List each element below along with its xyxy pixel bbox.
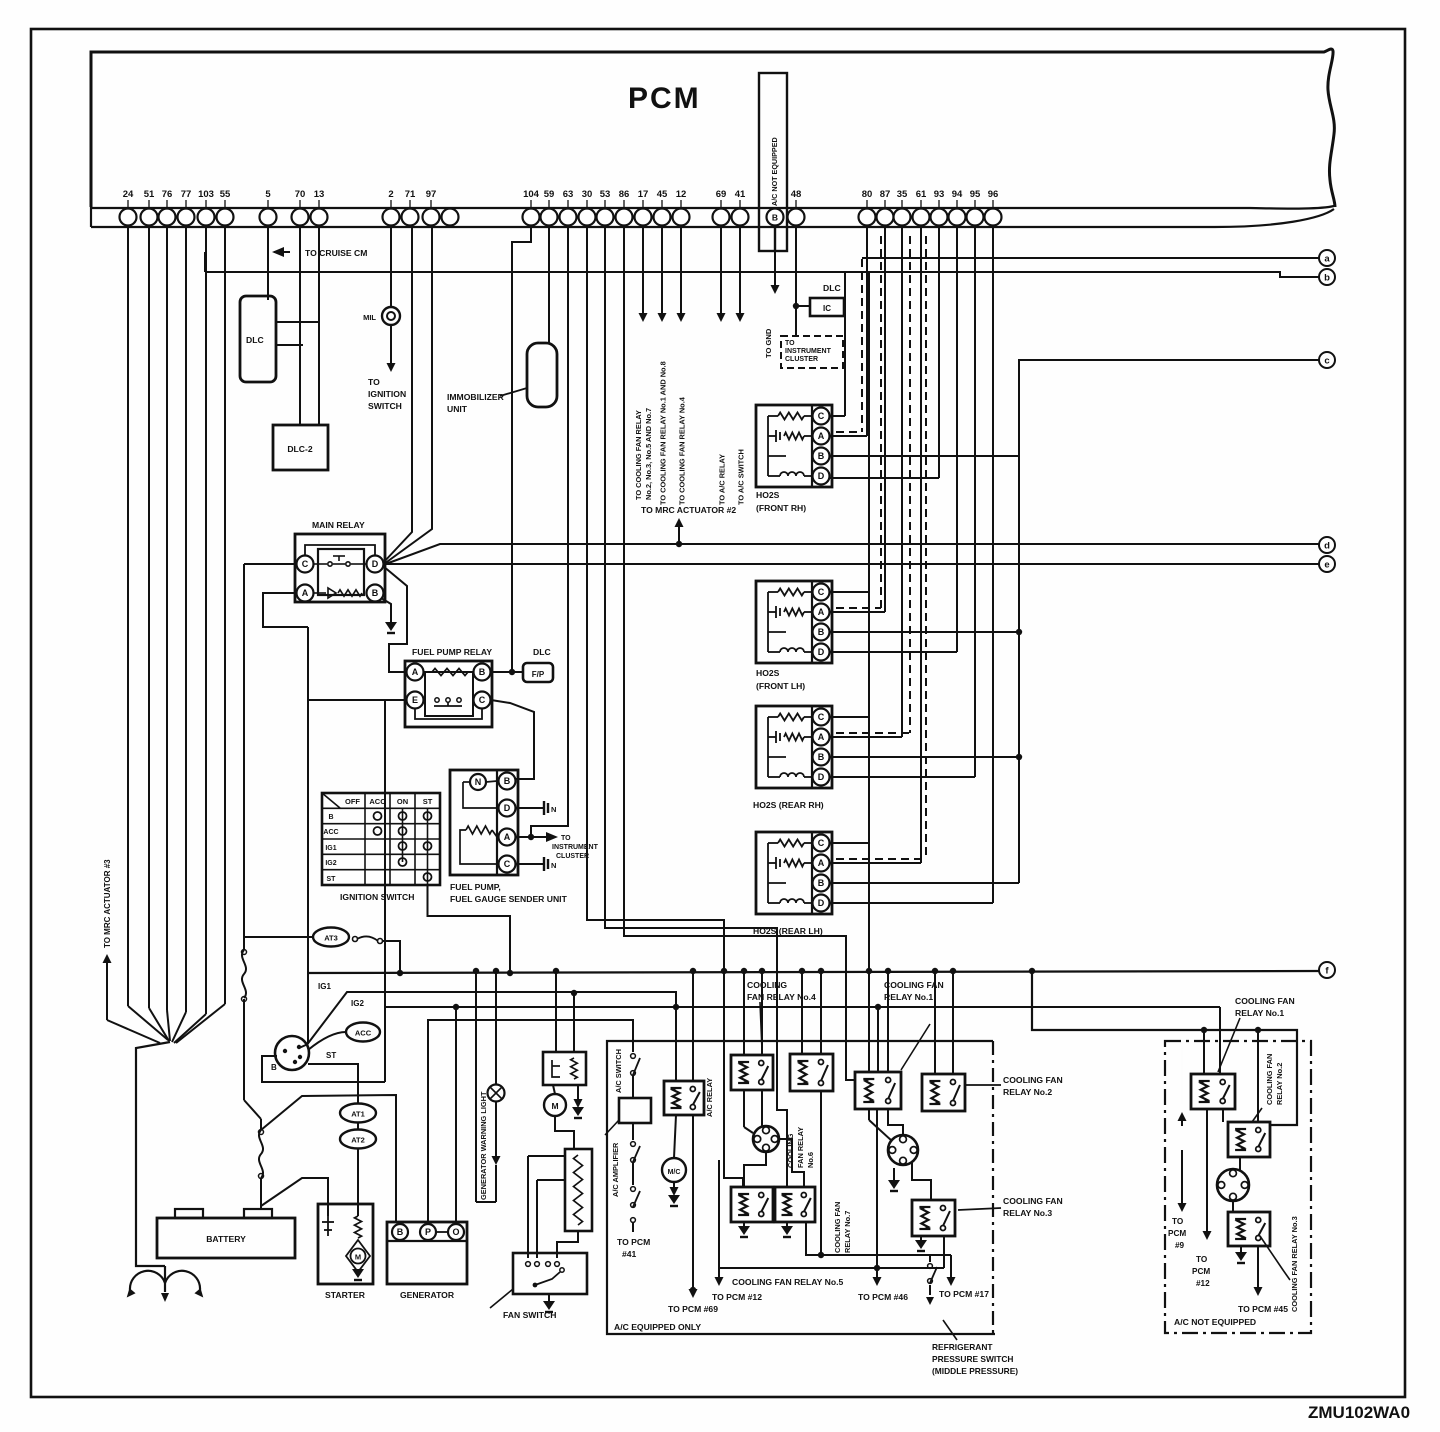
PCM pin 61 xyxy=(913,209,930,226)
svg-text:D: D xyxy=(504,803,511,813)
blower resistor xyxy=(565,1149,592,1231)
PCM pin 55 xyxy=(217,209,234,226)
svg-text:COOLING FAN: COOLING FAN xyxy=(1265,1054,1274,1105)
TO INSTRUMENT CLUSTER dashed box xyxy=(781,336,843,368)
svg-text:ST: ST xyxy=(326,1051,336,1060)
svg-text:C: C xyxy=(302,559,309,569)
svg-text:A/C RELAY: A/C RELAY xyxy=(705,1078,714,1117)
svg-text:GENERATOR: GENERATOR xyxy=(400,1290,455,1300)
svg-text:IG1: IG1 xyxy=(318,982,331,991)
wire pin5 to DLC xyxy=(267,225,269,300)
svg-text:RELAY No.1: RELAY No.1 xyxy=(884,992,933,1002)
wire/arrow to harness at x=643 xyxy=(642,225,644,314)
svg-text:48: 48 xyxy=(791,189,802,200)
svg-text:70: 70 xyxy=(295,189,306,200)
svg-text:TO PCM #46: TO PCM #46 xyxy=(858,1292,908,1302)
warning light feed wire xyxy=(475,971,477,1202)
F/P connector xyxy=(523,663,553,682)
resistor bottom to fan switch xyxy=(557,1231,578,1258)
svg-text:A/C AMPLIFIER: A/C AMPLIFIER xyxy=(611,1142,620,1197)
ignition switch rotary xyxy=(275,1036,309,1070)
svg-text:IMMOBILIZER: IMMOBILIZER xyxy=(447,392,505,402)
svg-text:UNIT: UNIT xyxy=(447,404,468,414)
wire AT3 to IG1 bus xyxy=(382,941,400,973)
svg-text:96: 96 xyxy=(988,189,999,200)
svg-text:97: 97 xyxy=(426,189,437,200)
TO PCM #17 arrow xyxy=(950,1255,952,1278)
heater chain vertical xyxy=(868,272,870,971)
svg-text:69: 69 xyxy=(716,189,727,200)
pin53 wire to relay7 coil xyxy=(605,225,787,1187)
fan1 wires xyxy=(743,1090,745,1127)
fan2 ground xyxy=(893,1168,895,1182)
STARTER xyxy=(318,1204,373,1284)
PCM pin 103 xyxy=(198,209,215,226)
PCM pin 69 xyxy=(713,209,730,226)
wire pin55 down xyxy=(224,225,226,1004)
not-equipped relay2 coil feed from rail xyxy=(1257,1030,1259,1122)
svg-text:DLC: DLC xyxy=(823,283,841,293)
wire pin104 jog down to F/P line xyxy=(512,225,531,672)
svg-text:ST: ST xyxy=(423,797,433,806)
wire/arrow to harness at x=662 xyxy=(661,225,663,314)
svg-text:B: B xyxy=(397,1227,404,1237)
A/C RELAY xyxy=(664,1081,704,1115)
svg-text:55: 55 xyxy=(220,189,231,200)
fan to relay3 xyxy=(1232,1201,1234,1212)
svg-text:41: 41 xyxy=(735,189,746,200)
svg-text:61: 61 xyxy=(916,189,927,200)
svg-text:d: d xyxy=(1324,540,1330,551)
PCM pin 48 xyxy=(788,209,805,226)
node f xyxy=(1319,962,1335,978)
TO PCM #45 arrow xyxy=(1257,1246,1259,1280)
svg-text:C: C xyxy=(818,712,825,722)
svg-text:95: 95 xyxy=(970,189,981,200)
PCM pin 59 xyxy=(541,209,558,226)
svg-text:A: A xyxy=(302,588,309,598)
wire/arrow to harness at x=681 xyxy=(680,225,682,314)
svg-text:C: C xyxy=(818,411,825,421)
dashed A/C-variant wire 1 xyxy=(861,259,863,432)
pin86 wire to relay1 xyxy=(624,225,855,1080)
svg-text:N: N xyxy=(551,805,556,814)
svg-text:76: 76 xyxy=(162,189,173,200)
svg-text:AT1: AT1 xyxy=(351,1110,365,1119)
AT2 fuse xyxy=(340,1130,376,1149)
TO PCM #46 arrow xyxy=(876,1109,878,1276)
PCM pin 41 xyxy=(732,209,749,226)
blower motor M xyxy=(544,1094,566,1116)
relay3 switch output down xyxy=(943,1236,945,1268)
IG1/f bus junction drops xyxy=(507,970,513,976)
svg-text:PCM: PCM xyxy=(628,82,701,115)
svg-text:A: A xyxy=(818,607,825,617)
PCM pin 35 xyxy=(894,209,911,226)
A/C EQUIPPED ONLY box xyxy=(607,1041,995,1334)
wire pin103 down xyxy=(205,225,207,1014)
A/C equipped boundary dash-dot xyxy=(992,1041,994,1334)
fan motor 2 xyxy=(888,1135,918,1165)
wire AT3 left to battery feed xyxy=(244,936,313,938)
triple chassis ground arcs xyxy=(130,1271,200,1290)
FAN SWITCH xyxy=(513,1253,587,1294)
PCM pin 87 xyxy=(877,209,894,226)
BATTERY xyxy=(157,1218,295,1258)
wire relay4 to fan1 to relay5 xyxy=(744,1152,766,1187)
svg-text:ACC: ACC xyxy=(355,1029,372,1038)
PCM pin B xyxy=(767,209,784,226)
svg-text:a: a xyxy=(1324,253,1330,264)
PCM pin 76 xyxy=(159,209,176,226)
PCM pin 71 xyxy=(402,209,419,226)
svg-text:IGNITION SWITCH: IGNITION SWITCH xyxy=(340,892,414,902)
ignition switch table xyxy=(322,793,440,885)
cooling fan relay No.3 xyxy=(912,1200,955,1236)
svg-text:BATTERY: BATTERY xyxy=(206,1234,246,1244)
resistor taps xyxy=(528,1155,565,1157)
cooling fan relay No.3 not-equipped xyxy=(1228,1212,1270,1246)
cooling fan relay No.4 xyxy=(731,1055,773,1090)
svg-text:COOLING FAN: COOLING FAN xyxy=(1003,1196,1063,1206)
svg-text:A/C NOT EQUIPPED: A/C NOT EQUIPPED xyxy=(770,137,779,206)
DLC connector xyxy=(240,296,276,382)
wire A/C relay switch feed xyxy=(692,971,694,1081)
fan motor 1 xyxy=(753,1126,779,1152)
svg-text:RELAY No.7: RELAY No.7 xyxy=(843,1211,852,1253)
PCM pin 104 xyxy=(523,209,540,226)
PCM pin 86 xyxy=(616,209,633,226)
ST column link line xyxy=(427,808,429,885)
svg-text:HO2S: HO2S xyxy=(756,668,780,678)
svg-text:B: B xyxy=(328,814,333,821)
front RH pin wires xyxy=(830,415,845,417)
blower relay xyxy=(543,1052,586,1085)
svg-text:B: B xyxy=(479,667,486,677)
svg-text:GENERATOR WARNING LIGHT: GENERATOR WARNING LIGHT xyxy=(479,1091,488,1200)
wire/arrow to harness at x=740 xyxy=(739,225,741,314)
svg-text:P: P xyxy=(425,1227,431,1237)
svg-text:MIL: MIL xyxy=(363,313,376,322)
PCM pin 24 xyxy=(120,209,137,226)
A/C AMPLIFIER xyxy=(619,1098,651,1123)
DLC-2 connector xyxy=(273,425,328,470)
wire ST column to IG bus xyxy=(428,885,511,973)
wire A/C relay switch to PCM 69 xyxy=(692,1115,694,1290)
wire/arrow to harness at x=721 xyxy=(720,225,722,314)
svg-text:86: 86 xyxy=(619,189,630,200)
wire sender C to gauge return xyxy=(516,863,544,865)
svg-text:RELAY No.2: RELAY No.2 xyxy=(1275,1063,1284,1105)
TO MRC ACTUATOR #2 tap on d-line xyxy=(676,541,682,547)
svg-text:TO GND: TO GND xyxy=(764,328,773,358)
PCM pin 45 xyxy=(654,209,671,226)
svg-text:ON: ON xyxy=(397,797,408,806)
wire battery plus to generator B xyxy=(261,1095,396,1222)
svg-text:DLC: DLC xyxy=(246,335,264,345)
FUEL PUMP, FUEL GAUGE SENDER UNIT xyxy=(450,770,518,875)
svg-text:C: C xyxy=(504,859,511,869)
wire pin70 down to DLC-2 xyxy=(299,225,301,425)
PCM pin 12 xyxy=(673,209,690,226)
svg-text:(FRONT LH): (FRONT LH) xyxy=(756,681,805,691)
cooling fan relay No.1 not-equipped xyxy=(1191,1074,1235,1109)
svg-text:M: M xyxy=(355,1253,361,1262)
PCM pin 94 xyxy=(949,209,966,226)
svg-text:TO CRUISE CM: TO CRUISE CM xyxy=(305,248,367,258)
svg-text:FAN RELAY: FAN RELAY xyxy=(796,1127,805,1168)
svg-text:HO2S: HO2S xyxy=(756,490,780,500)
main relay K1 xyxy=(295,534,385,602)
label pointer relay4 xyxy=(760,1002,762,1050)
svg-text:HO2S (REAR RH): HO2S (REAR RH) xyxy=(753,800,824,810)
svg-text:E: E xyxy=(412,695,418,705)
PCM pin 63 xyxy=(560,209,577,226)
wire M to resistor xyxy=(555,1116,574,1149)
PCM pin 30 xyxy=(579,209,596,226)
wire main relay A elbow to ignition feed xyxy=(263,593,308,627)
wire generator P up to ACC bus xyxy=(428,1020,633,1222)
svg-text:24: 24 xyxy=(123,189,134,200)
node d xyxy=(1319,537,1335,553)
svg-text:(MIDDLE PRESSURE): (MIDDLE PRESSURE) xyxy=(932,1366,1018,1376)
svg-text:C: C xyxy=(818,838,825,848)
svg-text:B: B xyxy=(818,878,825,888)
relay3 ground xyxy=(920,1236,922,1242)
fan switch ground xyxy=(548,1294,550,1303)
svg-text:IG2: IG2 xyxy=(351,999,364,1008)
svg-text:C: C xyxy=(479,695,486,705)
GENERATOR xyxy=(387,1222,467,1284)
svg-text:A/C EQUIPPED ONLY: A/C EQUIPPED ONLY xyxy=(614,1322,701,1332)
PCM pin 51 xyxy=(141,209,158,226)
svg-text:TO A/C SWITCH: TO A/C SWITCH xyxy=(737,449,746,505)
pin30 wire to relay5 xyxy=(587,225,743,1187)
wire pin61 to rear LH A xyxy=(920,225,922,863)
svg-text:RELAY No.3: RELAY No.3 xyxy=(1003,1208,1052,1218)
TO IGNITION SWITCH arrow from MIL xyxy=(390,325,392,364)
wire pin77 down xyxy=(185,225,187,1012)
magnetic clutch M/C xyxy=(662,1158,686,1182)
wire pin59 to immobilizer xyxy=(548,225,550,343)
svg-text:59: 59 xyxy=(544,189,555,200)
PCM pin 80 xyxy=(859,209,876,226)
svg-text:103: 103 xyxy=(198,189,214,200)
svg-text:17: 17 xyxy=(638,189,649,200)
battery feed vertical x244 xyxy=(243,564,245,950)
svg-text:TO PCM #45: TO PCM #45 xyxy=(1238,1304,1288,1314)
PCM pin 97 xyxy=(423,209,440,226)
svg-text:PCM: PCM xyxy=(1192,1267,1210,1276)
relay2 feeds xyxy=(934,971,936,1074)
HO2S front LH xyxy=(756,581,832,663)
svg-text:DLC: DLC xyxy=(533,647,551,657)
cooling fan relay No.2 equipped xyxy=(922,1074,965,1111)
svg-text:TO MRC ACTUATOR #2: TO MRC ACTUATOR #2 xyxy=(641,505,736,515)
f bus corner to relay rail xyxy=(1032,971,1297,1125)
svg-text:REFRIGERANT: REFRIGERANT xyxy=(932,1342,993,1352)
relay6 feeds xyxy=(801,971,803,1054)
svg-text:B: B xyxy=(772,213,778,223)
svg-text:A: A xyxy=(818,431,825,441)
wire sender A junction to instrument cluster xyxy=(528,834,534,840)
svg-text:5: 5 xyxy=(265,189,271,200)
cooling fan relay No.5 xyxy=(731,1187,773,1222)
svg-text:COOLING FAN: COOLING FAN xyxy=(833,1202,842,1253)
svg-text:FUEL PUMP RELAY: FUEL PUMP RELAY xyxy=(412,647,492,657)
wire sender D to cluster gauge xyxy=(516,807,544,809)
svg-text:CLUSTER: CLUSTER xyxy=(785,356,818,363)
wire main relay C left to battery feed xyxy=(244,563,296,565)
PCM pin 13 xyxy=(311,209,328,226)
TO PCM #9 branch xyxy=(1181,1120,1183,1126)
wire pin87 to front LH A xyxy=(884,225,886,612)
svg-text:#9: #9 xyxy=(1175,1241,1185,1250)
svg-text:N: N xyxy=(551,861,556,870)
wire relay1sw down to relay2 xyxy=(1222,1109,1224,1122)
node a xyxy=(1319,250,1335,266)
ON column link line xyxy=(402,808,404,862)
wire relay B to F/P xyxy=(491,671,523,673)
svg-text:M/C: M/C xyxy=(668,1169,681,1176)
ACC bus y1007 xyxy=(385,1006,1220,1008)
svg-text:AT2: AT2 xyxy=(351,1136,365,1145)
svg-text:TO COOLING FAN RELAY No.1 AND: TO COOLING FAN RELAY No.1 AND No.8 xyxy=(659,361,668,505)
svg-text:b: b xyxy=(1324,272,1330,283)
svg-text:INSTRUMENT: INSTRUMENT xyxy=(785,348,832,355)
svg-text:35: 35 xyxy=(897,189,908,200)
main relay ground xyxy=(381,598,391,620)
svg-text:COOLING FAN RELAY No.5: COOLING FAN RELAY No.5 xyxy=(732,1277,843,1287)
wire pin76 down xyxy=(166,225,168,1010)
rear RH pin wires xyxy=(830,716,869,718)
PCM pin nc xyxy=(442,209,459,226)
wire pin95 to rear RH D xyxy=(974,225,976,777)
fusible link battery main xyxy=(260,1119,262,1130)
wire pin51 down xyxy=(148,225,150,1008)
svg-text:TO PCM #69: TO PCM #69 xyxy=(668,1304,718,1314)
svg-text:N: N xyxy=(475,777,482,787)
svg-text:13: 13 xyxy=(314,189,325,200)
cooling fan relay No.1 equipped xyxy=(855,1072,901,1109)
svg-text:FAN RELAY No.4: FAN RELAY No.4 xyxy=(747,992,816,1002)
wire pin35 to rear RH A xyxy=(901,225,903,737)
svg-text:A: A xyxy=(818,858,825,868)
refrigerant pressure switch label xyxy=(943,1320,957,1340)
svg-text:B: B xyxy=(372,588,379,598)
bus b-line y272 from DLC area to node b xyxy=(205,272,1319,277)
svg-text:TO: TO xyxy=(1196,1255,1208,1264)
svg-text:PRESSURE SWITCH: PRESSURE SWITCH xyxy=(932,1354,1013,1364)
svg-text:COOLING FAN: COOLING FAN xyxy=(1235,996,1295,1006)
svg-text:TO: TO xyxy=(368,377,380,387)
wire fan-in to battery node xyxy=(128,1006,168,1040)
PCM module box xyxy=(91,49,1335,207)
wire pin2 to MIL xyxy=(390,225,392,307)
svg-text:No.2, No.3, No.5 AND No.7: No.2, No.3, No.5 AND No.7 xyxy=(644,408,653,500)
HO2S rear LH xyxy=(756,832,832,914)
wire AT2 to starter coil xyxy=(357,1148,359,1216)
IMMOBILIZER UNIT xyxy=(527,343,557,407)
sensor B bus to node c xyxy=(1019,360,1319,883)
svg-text:TO COOLING FAN RELAY No.4: TO COOLING FAN RELAY No.4 xyxy=(678,396,687,505)
svg-text:94: 94 xyxy=(952,189,963,200)
svg-text:30: 30 xyxy=(582,189,593,200)
blower relay ground xyxy=(577,1085,579,1100)
PCM pin 17 xyxy=(635,209,652,226)
svg-text:C: C xyxy=(818,587,825,597)
A/C amplifier output switch chain xyxy=(632,1123,634,1140)
svg-text:ACC: ACC xyxy=(369,797,386,806)
svg-text:ZMU102WA0: ZMU102WA0 xyxy=(1308,1403,1410,1422)
relay6 output to bottom bus xyxy=(820,1091,822,1255)
wire pin93 to front RH D xyxy=(938,225,940,478)
a-line to node a xyxy=(862,257,1319,259)
svg-text:ST: ST xyxy=(327,876,337,883)
svg-text:IC: IC xyxy=(823,304,831,313)
svg-text:COOLING: COOLING xyxy=(747,980,787,990)
svg-text:TO: TO xyxy=(785,340,795,347)
svg-text:No.6: No.6 xyxy=(806,1152,815,1168)
svg-text:(FRONT RH): (FRONT RH) xyxy=(756,503,806,513)
svg-text:FUEL GAUGE SENDER UNIT: FUEL GAUGE SENDER UNIT xyxy=(450,894,568,904)
fusible link battery main feed xyxy=(242,950,246,998)
svg-text:B: B xyxy=(504,776,511,786)
PCM pin 2 xyxy=(383,209,400,226)
wire pin48 down xyxy=(795,225,797,336)
svg-text:B: B xyxy=(818,451,825,461)
svg-text:TO: TO xyxy=(561,835,571,842)
main relay D fanout wires xyxy=(383,225,412,563)
dashed A/C-variant wire 2 xyxy=(880,236,882,608)
warning light lamp xyxy=(495,971,497,1085)
fan motor not-equipped xyxy=(1217,1169,1249,1201)
svg-text:A: A xyxy=(504,832,511,842)
svg-text:TO COOLING FAN RELAY: TO COOLING FAN RELAY xyxy=(634,410,643,500)
svg-text:A: A xyxy=(818,732,825,742)
svg-text:51: 51 xyxy=(144,189,155,200)
svg-text:RELAY No.2: RELAY No.2 xyxy=(1003,1087,1052,1097)
svg-text:B: B xyxy=(818,752,825,762)
svg-text:F/P: F/P xyxy=(532,670,545,679)
fan1 to relay7 switch xyxy=(779,1139,804,1187)
PCM pin 95 xyxy=(967,209,984,226)
wire ignition to ST (AT1) xyxy=(308,1064,358,1104)
warning light bottom link xyxy=(476,1201,496,1203)
acc rail to not-equipped xyxy=(1219,1007,1221,1074)
svg-text:TO A/C RELAY: TO A/C RELAY xyxy=(718,454,727,505)
svg-text:#12: #12 xyxy=(1196,1279,1210,1288)
svg-text:SWITCH: SWITCH xyxy=(368,401,402,411)
svg-text:80: 80 xyxy=(862,189,873,200)
pin B to GND arrow xyxy=(774,225,776,251)
wire ACC from switch xyxy=(308,1032,346,1050)
A/C NOT EQUIPPED box dash-dot xyxy=(1165,1041,1311,1333)
PCM pin 93 xyxy=(931,209,948,226)
svg-text:77: 77 xyxy=(181,189,192,200)
svg-text:CLUSTER: CLUSTER xyxy=(556,853,589,860)
svg-text:87: 87 xyxy=(880,189,891,200)
PCM pin 5 xyxy=(260,209,277,226)
PCM pin 53 xyxy=(597,209,614,226)
front LH pin wires xyxy=(830,591,869,593)
AT3 fuse xyxy=(313,928,349,947)
M/C ground xyxy=(673,1182,675,1188)
svg-text:TO MRC ACTUATOR #3: TO MRC ACTUATOR #3 xyxy=(103,859,112,948)
dashed A/C-variant wire 4 xyxy=(925,236,927,859)
svg-text:COOLING FAN: COOLING FAN xyxy=(1003,1075,1063,1085)
svg-text:e: e xyxy=(1324,559,1329,570)
